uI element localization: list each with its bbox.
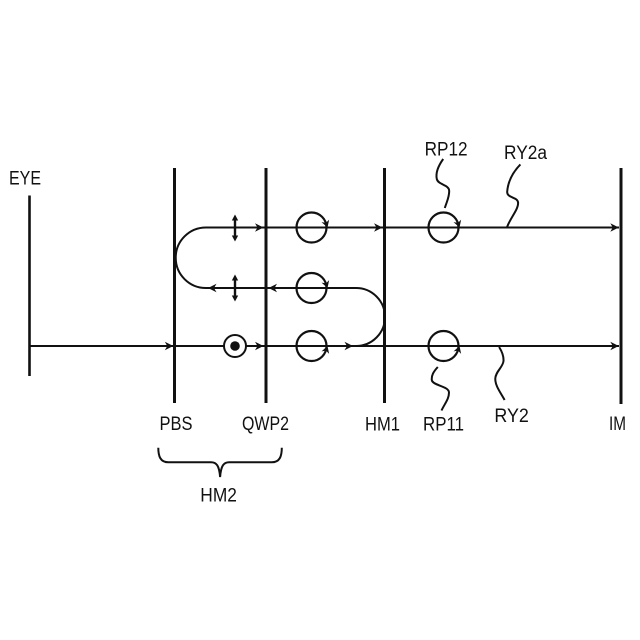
arrow bottom ray before HM1 turn <box>345 342 354 351</box>
wire bottom ray left segment <box>30 345 225 347</box>
circular polarization symbol top ray RP12 (CW) <box>429 213 464 243</box>
circular polarization symbol top ray at QWP2-HM1 (CW) <box>297 213 332 243</box>
leader squiggle RY2 <box>495 347 504 400</box>
svg-text:PBS: PBS <box>160 414 193 435</box>
brace HM2 <box>158 448 281 477</box>
circular polarization symbol bottom ray QWP2-HM1 (CCW) <box>297 331 332 361</box>
wire top ray <box>206 227 619 229</box>
svg-text:RY2: RY2 <box>494 406 529 427</box>
leader squiggle RP11 <box>432 367 449 411</box>
HM1 plate (vertical line) <box>383 168 386 403</box>
svg-text:HM2: HM2 <box>200 486 237 507</box>
circular polarization symbol middle ray (CW) <box>297 273 332 303</box>
leader squiggle RY2a <box>507 164 520 227</box>
arrow top ray at HM1 <box>374 223 383 232</box>
wire bottom ray right segment <box>247 345 620 347</box>
arrow middle ray right of QWP2 (left) <box>269 284 278 293</box>
vertical double arrow on top ray <box>232 215 238 242</box>
arrow middle ray at arc junction (left) <box>208 284 217 293</box>
circular polarization symbol bottom ray RP11 (CCW) <box>429 331 464 361</box>
wire middle ray <box>206 287 356 289</box>
leader squiggle RP12 <box>436 159 449 208</box>
IM plane (vertical line) <box>620 168 623 404</box>
arrow top ray at QWP2 <box>255 223 264 232</box>
arrow bottom ray at IM <box>610 342 619 351</box>
PBS plate (vertical line) <box>173 168 176 403</box>
arrow bottom ray at QWP2 <box>255 342 264 351</box>
svg-text:RP12: RP12 <box>425 140 468 161</box>
arrow bottom ray at PBS <box>165 342 174 351</box>
svg-text:HM1: HM1 <box>365 414 400 435</box>
polarization dot symbol on bottom ray <box>224 335 246 357</box>
wire left U-turn at PBS <box>176 227 206 288</box>
vertical double arrow on middle ray <box>232 275 238 302</box>
arrow top ray at IM <box>610 223 619 232</box>
svg-text:QWP2: QWP2 <box>242 414 289 435</box>
QWP2 plate (vertical line) <box>265 168 268 403</box>
svg-text:RY2a: RY2a <box>504 143 547 164</box>
svg-text:EYE: EYE <box>9 169 41 190</box>
wire right U-turn at HM1 <box>356 288 385 346</box>
eye plane (vertical line) <box>28 196 31 377</box>
svg-text:IM: IM <box>609 414 626 435</box>
svg-text:RP11: RP11 <box>423 414 464 435</box>
